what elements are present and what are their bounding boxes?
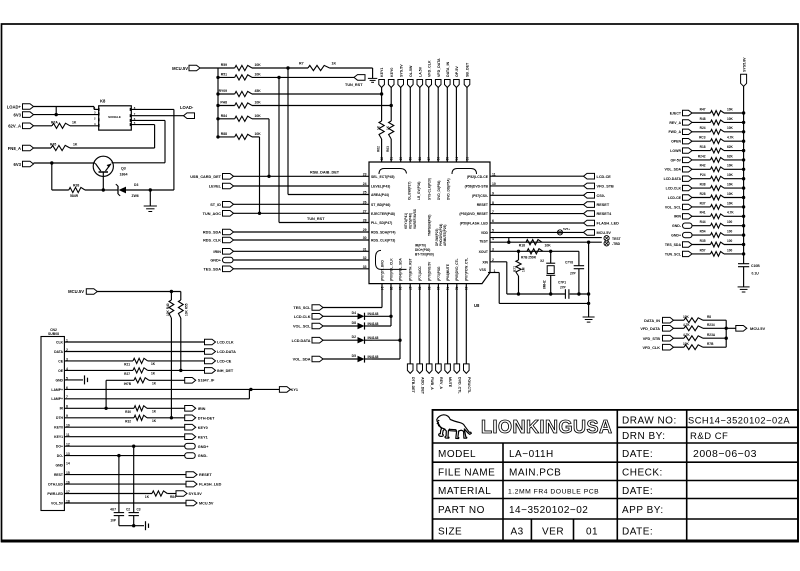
svg-text:FILE NAME: FILE NAME (438, 468, 495, 479)
crystal X2 8MHZ (550, 251, 552, 263)
svg-text:K8: K8 (100, 99, 106, 104)
svg-text:27: 27 (363, 210, 367, 214)
node MCU.5V (vfd group) (726, 327, 736, 329)
svg-text:ST_ID: ST_ID (210, 203, 221, 207)
svg-text:SYS.5V: SYS.5V (189, 492, 203, 496)
svg-text:25: 25 (363, 191, 367, 195)
wire pin13 GND- (64, 455, 184, 457)
svg-text:IRIN: IRIN (198, 407, 206, 411)
svg-text:1K: 1K (151, 372, 156, 376)
svg-text:DVD_DO(P5A): DVD_DO(P5A) (447, 178, 451, 200)
svg-text:TUN_AGC: TUN_AGC (203, 212, 222, 216)
node DTB-DET (bottom tag) (409, 284, 411, 364)
svg-text:XIN: XIN (482, 260, 488, 264)
svg-text:(P73)PSG: (P73)PSG (437, 266, 441, 281)
node VFD_CLK (top tag) (426, 80, 432, 88)
svg-text:KEY0: KEY0 (198, 426, 208, 430)
relay K8 (99, 106, 132, 130)
svg-text:LCD-CE: LCD-CE (597, 175, 612, 179)
node VFD_DATA (top tag) (435, 80, 441, 88)
svg-text:(P65)DVD_CTL: (P65)DVD_CTL (455, 258, 459, 281)
ground (caps) (119, 525, 144, 527)
wire VSS (488, 272, 499, 274)
resistor R59 10K (218, 67, 235, 69)
resistor R55 10K (180, 292, 182, 301)
node FLASH_LED (490, 222, 584, 224)
svg-text:R7B 250R: R7B 250R (521, 256, 537, 260)
resistor RM7B 1K (SIG_IF) (106, 379, 134, 381)
svg-text:SIZE: SIZE (438, 526, 462, 537)
svg-text:OP-5V: OP-5V (670, 158, 681, 162)
svg-text:XOUT: XOUT (479, 250, 489, 254)
wire pin12 GND+ (64, 445, 184, 447)
svg-text:ADD_DET: ADD_DET (420, 377, 424, 395)
resistor R18 10K (526, 240, 542, 245)
svg-text:100: 100 (727, 239, 733, 243)
svg-text:PART NO: PART NO (438, 505, 485, 516)
svg-text:OL.5W: OL.5W (409, 65, 413, 77)
node FWB_A (bottom tag) (428, 284, 430, 364)
svg-text:VOL_SDA: VOL_SDA (293, 358, 311, 362)
svg-text:(P52)LCD-CE: (P52)LCD-CE (467, 175, 489, 179)
svg-text:R7: R7 (299, 62, 304, 66)
svg-text:OE: OE (58, 369, 64, 373)
node POW.CTL (bottom tag) (465, 284, 467, 364)
ground (R7 row) (372, 68, 374, 78)
svg-text:RDS_CLK: RDS_CLK (203, 239, 221, 243)
svg-text:LA−011H: LA−011H (509, 449, 554, 460)
wire collector line (112, 162, 166, 164)
node RESET (490, 204, 584, 206)
svg-text:14: 14 (66, 462, 70, 466)
svg-text:DTB-DET: DTB-DET (411, 377, 415, 394)
svg-text:RDS_SDA(P74): RDS_SDA(P74) (371, 231, 396, 235)
svg-text:LCD.DATA: LCD.DATA (217, 350, 236, 354)
svg-text:6V3: 6V3 (14, 162, 22, 167)
svg-text:10K: 10K (727, 107, 734, 111)
svg-text:R51: R51 (221, 72, 227, 76)
node DVD_CTL (bottom tag) (456, 284, 458, 364)
node VFD_STB (490, 185, 584, 187)
svg-text:TUN_SCL: TUN_SCL (665, 252, 682, 256)
svg-text:VAREF/AVSS: VAREF/AVSS (413, 209, 417, 229)
svg-text:KY1: KY1 (291, 388, 298, 392)
wire pin2 LCD.DATA (64, 351, 204, 353)
svg-text:MCU.5V: MCU.5V (172, 66, 188, 71)
svg-text:R47: R47 (700, 107, 706, 111)
resistor R45 1K (34, 147, 52, 149)
svg-text:(P56)DVD-STB: (P56)DVD-STB (465, 185, 489, 189)
wire pin10 KEY0 (64, 426, 184, 428)
node OL.5W (top tag) (408, 80, 414, 88)
svg-text:R54: R54 (700, 230, 706, 234)
svg-text:MCU.5V: MCU.5V (597, 231, 612, 235)
svg-text:R63: R63 (386, 146, 390, 152)
svg-text:C7P1: C7P1 (558, 281, 566, 285)
svg-text:LAMP+: LAMP+ (51, 388, 63, 392)
svg-text:VFD_CLK: VFD_CLK (642, 346, 660, 350)
svg-text:1K: 1K (152, 419, 157, 423)
svg-text:R84: R84 (221, 114, 227, 118)
node LEVEL (223, 183, 234, 189)
svg-text:SB_DET: SB_DET (466, 62, 470, 77)
node DATA_IN (top tag) (445, 80, 451, 88)
node IRIN (223, 249, 234, 255)
svg-text:GND: GND (55, 378, 63, 382)
logo lion (437, 415, 472, 439)
svg-text:SYS-CLK(P20): SYS-CLK(P20) (428, 178, 432, 200)
svg-text:10K: 10K (727, 201, 734, 205)
wire pin11 KEY1 (64, 436, 184, 438)
svg-text:R24: R24 (700, 126, 706, 130)
node KEY0 (top tag) (388, 80, 394, 88)
svg-text:ARMUTE(P25): ARMUTE(P25) (443, 225, 447, 246)
node OP-5V (top tag) (454, 80, 460, 88)
svg-text:TES_SDA: TES_SDA (203, 267, 221, 271)
svg-text:62K: 62K (727, 145, 734, 149)
svg-text:29: 29 (363, 228, 367, 232)
svg-text:CHECK:: CHECK: (622, 468, 663, 479)
svg-text:LCD.DATA: LCD.DATA (292, 339, 311, 343)
svg-text:VOL.5V: VOL.5V (51, 501, 64, 505)
svg-text:-TBD: -TBD (612, 242, 621, 246)
svg-text:10K R55: 10K R55 (185, 303, 189, 316)
diode D3 ZW6 (zener, pointing left) (103, 189, 118, 191)
wire FN8_A up to relay pin4 (154, 125, 156, 148)
svg-text:RESET: RESET (597, 203, 610, 207)
svg-text:TES_SCL: TES_SCL (293, 306, 311, 310)
svg-text:10K: 10K (727, 164, 734, 168)
resistor 1K (key pullup) (381, 88, 383, 122)
svg-text:SEL_ECT(P45): SEL_ECT(P45) (371, 175, 395, 179)
svg-text:10P: 10P (110, 519, 117, 523)
svg-text:FWD_A: FWD_A (669, 130, 682, 134)
svg-text:R&D CF: R&D CF (690, 431, 728, 442)
resistor R7 1K (252, 67, 308, 69)
ground cap (pin5) (64, 379, 83, 381)
resistor R7B 250R (527, 249, 543, 254)
svg-text:RESET4: RESET4 (597, 212, 613, 216)
svg-text:LAMP+: LAMP+ (51, 397, 63, 401)
svg-text:MODEL: MODEL (438, 449, 476, 460)
test points TEST (490, 237, 602, 239)
svg-text:(P67)DT_BKO: (P67)DT_BKO (380, 260, 384, 281)
svg-text:VDD: VDD (481, 231, 489, 235)
node SYS.5V (ladder top tag) (741, 74, 747, 86)
svg-text:MCU.5V: MCU.5V (68, 289, 84, 294)
node MCU.5V (VDD) (490, 231, 584, 233)
svg-text:TUN_RST: TUN_RST (345, 83, 363, 87)
wire PH8 row to KEY0 net (252, 105, 391, 107)
svg-text:100: 100 (727, 230, 733, 234)
svg-text:1K: 1K (386, 125, 390, 130)
svg-text:DTH: DTH (56, 416, 64, 420)
wire TUN_RST branch down to pin28 (278, 77, 280, 222)
svg-text:26: 26 (363, 201, 367, 205)
svg-text:VOL_SCL: VOL_SCL (665, 205, 682, 209)
svg-text:MUTE: MUTE (448, 377, 452, 388)
svg-text:RSB_DAIB_DET: RSB_DAIB_DET (310, 171, 340, 175)
svg-text:MATERIAL: MATERIAL (438, 486, 491, 497)
svg-text:10K: 10K (727, 173, 734, 177)
svg-text:FN8_A: FN8_A (8, 146, 21, 151)
svg-text:BT-TX0(P60): BT-TX0(P60) (415, 253, 434, 257)
svg-text:APP BY:: APP BY: (622, 505, 664, 516)
svg-text:2008−06−03: 2008−06−03 (693, 448, 757, 460)
svg-text:VFD_CLK: VFD_CLK (427, 60, 431, 77)
wire MCU.5V bus (200, 67, 218, 69)
wire pin16 FLASH_LED (64, 483, 186, 485)
svg-text:LOAD-: LOAD- (180, 105, 194, 110)
svg-text:LCD.CLK: LCD.CLK (294, 315, 311, 319)
svg-text:GND-: GND- (672, 224, 682, 228)
capacitor C7P1 27P (564, 289, 566, 299)
svg-text:LCD-CE: LCD-CE (217, 360, 232, 364)
svg-text:1K: 1K (332, 62, 337, 66)
svg-text:24: 24 (363, 182, 367, 186)
node RDS_SDA (223, 229, 234, 235)
svg-text:REV_A: REV_A (439, 377, 443, 389)
wire RY09 row to KEY1 net (252, 93, 382, 95)
svg-text:LOWR: LOWR (670, 149, 681, 153)
svg-text:R32: R32 (125, 419, 131, 423)
node ADD_DET (bottom tag) (419, 284, 421, 364)
svg-text:DATA_IN: DATA_IN (644, 319, 660, 323)
svg-text:VSS: VSS (479, 268, 487, 272)
node LCD-CE (490, 175, 584, 177)
svg-text:DATE:: DATE: (622, 486, 653, 497)
svg-text:VFD_STB: VFD_STB (643, 337, 661, 341)
svg-text:RY09: RY09 (219, 89, 227, 93)
node LOAD+ (23, 104, 34, 110)
resistor R77 1M (518, 251, 520, 260)
transistor Q3 1864 (93, 156, 113, 176)
svg-text:MCU.5V: MCU.5V (199, 502, 214, 506)
title block (433, 410, 799, 542)
svg-text:P24: P24 (700, 173, 706, 177)
svg-text:VOL_SCL: VOL_SCL (293, 325, 311, 329)
svg-text:10K: 10K (255, 132, 262, 136)
ground (crystal) (583, 316, 595, 318)
svg-text:(P70)BTH_RST: (P70)BTH_RST (409, 258, 413, 281)
svg-text:Q3: Q3 (121, 167, 126, 171)
svg-text:U8: U8 (474, 303, 480, 308)
svg-text:10K: 10K (255, 114, 262, 118)
svg-text:X2: X2 (540, 259, 544, 263)
resistor R38 584R (51, 163, 53, 190)
svg-text:RDS_SDA: RDS_SDA (203, 231, 221, 235)
svg-text:1K: 1K (152, 382, 157, 386)
svg-text:GND: GND (55, 464, 63, 468)
svg-text:DVD_CTL: DVD_CTL (457, 377, 461, 394)
svg-text:R18: R18 (700, 145, 706, 149)
svg-text:(P50)FLASH_LED: (P50)FLASH_LED (460, 222, 489, 226)
ground (relay section) (149, 190, 151, 206)
node CS0- (490, 194, 584, 196)
svg-text:RC3: RC3 (699, 136, 706, 140)
svg-text:LEVEL(P43): LEVEL(P43) (371, 185, 390, 189)
svg-text:14−3520102−02: 14−3520102−02 (509, 505, 588, 516)
svg-text:SUB08: SUB08 (48, 332, 59, 336)
svg-text:10K: 10K (545, 244, 552, 248)
svg-text:4.7K: 4.7K (727, 211, 734, 215)
svg-text:TES_SDA: TES_SDA (665, 243, 682, 247)
svg-text:DATE:: DATE: (622, 449, 653, 460)
svg-text:1K: 1K (73, 143, 78, 147)
svg-text:MAIN.PCB: MAIN.PCB (509, 468, 561, 479)
svg-text:R7B: R7B (707, 342, 714, 346)
resistor R40 10K (170, 292, 172, 301)
svg-text:10K: 10K (727, 183, 734, 187)
svg-text:4.7K: 4.7K (683, 333, 690, 337)
svg-text:OP-5V: OP-5V (455, 66, 459, 77)
svg-text:INH_DET: INH_DET (217, 369, 234, 373)
node TUN_RST (252, 76, 354, 78)
wire bottom pin 34 to TES_SCL (381, 284, 383, 308)
resistor 1K (key pullup) (390, 88, 392, 122)
resistor R84 1K (pin17) (64, 493, 152, 495)
svg-text:GND+: GND+ (671, 234, 681, 238)
node FN8_A (23, 145, 34, 151)
svg-text:28: 28 (363, 219, 367, 223)
svg-text:R234: R234 (707, 323, 715, 327)
svg-text:VFD_DATA: VFD_DATA (640, 327, 660, 331)
wire diode rows to IC (372, 315, 391, 317)
svg-text:10K: 10K (727, 192, 734, 196)
svg-text:R242: R242 (698, 154, 706, 158)
svg-text:C7Y8: C7Y8 (565, 261, 573, 265)
svg-text:DRN BY:: DRN BY: (622, 431, 666, 442)
svg-text:31: 31 (363, 248, 367, 252)
svg-text:01: 01 (586, 526, 598, 537)
svg-text:OL.BW(P27): OL.BW(P27) (408, 182, 412, 200)
svg-text:D5: D5 (352, 354, 356, 358)
bottom rail (507, 293, 566, 295)
svg-text:R59: R59 (221, 63, 227, 67)
node 6V3 (23, 112, 34, 118)
svg-text:1864: 1864 (120, 172, 128, 176)
svg-text:(P67)PCW_CTL: (P67)PCW_CTL (465, 258, 469, 281)
capacitor C7Y8 27P (578, 251, 580, 265)
svg-text:IH7B: IH7B (124, 382, 132, 386)
svg-text:62K: 62K (727, 154, 734, 158)
svg-text:VOL_SDA: VOL_SDA (664, 168, 681, 172)
capacitor C10B 0.1U (738, 263, 749, 265)
svg-text:PWR.LED: PWR.LED (47, 492, 63, 496)
svg-text:R35: R35 (700, 239, 706, 243)
svg-text:ZW6: ZW6 (132, 194, 139, 198)
wire 6V3 to base (34, 162, 96, 164)
svg-text:DTH-DET: DTH-DET (198, 416, 215, 420)
svg-text:C10B: C10B (751, 264, 760, 268)
svg-text:32: 32 (363, 256, 367, 260)
svg-text:CN2: CN2 (50, 328, 57, 332)
svg-text:LIONKINGUSA: LIONKINGUSA (481, 417, 613, 437)
svg-text:KEY1: KEY1 (380, 68, 384, 77)
svg-text:IR: IR (60, 407, 64, 411)
wire pin1 LCD.CLK (64, 341, 204, 343)
node GND+ (223, 257, 234, 263)
svg-text:KEY1: KEY1 (54, 435, 63, 439)
svg-text:SYS.5V: SYS.5V (399, 64, 403, 77)
node LA.5V (top tag) (417, 80, 423, 88)
node ST_ID (223, 202, 234, 208)
resistor R30 1K (pin8 IR) (64, 407, 134, 409)
svg-text:PH8: PH8 (220, 101, 227, 105)
resistor R7A 1K (34, 125, 53, 127)
svg-text:1K: 1K (72, 121, 77, 125)
svg-text:CLK: CLK (56, 340, 64, 344)
svg-text:27P: 27P (560, 286, 567, 290)
svg-text:1.2MM FR4 DOUBLE PCB: 1.2MM FR4 DOUBLE PCB (508, 489, 599, 496)
svg-text:4.7K: 4.7K (727, 136, 734, 140)
svg-text:100: 100 (727, 220, 733, 224)
svg-text:EJECTER(P48): EJECTER(P48) (371, 212, 395, 216)
svg-text:LEVEL: LEVEL (209, 185, 222, 189)
svg-text:GND-: GND- (198, 454, 208, 458)
svg-text:8MHZ: 8MHZ (543, 280, 547, 289)
svg-text:LB_GV(P34): LB_GV(P34) (417, 182, 421, 200)
svg-text:SYS5.8V: SYS5.8V (743, 57, 747, 72)
svg-text:(P60)VOL_CLK: (P60)VOL_CLK (389, 258, 393, 281)
svg-text:IN4148: IN4148 (368, 322, 379, 326)
ground (ladder) (738, 286, 750, 288)
svg-text:6V3: 6V3 (14, 112, 22, 117)
svg-text:R45: R45 (50, 143, 56, 147)
svg-text:R77: R77 (513, 266, 517, 272)
svg-text:AREA(P44): AREA(P44) (371, 193, 389, 197)
resistor PH8 10K (218, 105, 235, 107)
svg-text:DIO+(P30): DIO+(P30) (415, 248, 430, 252)
svg-text:LCD.CLK: LCD.CLK (666, 187, 682, 191)
svg-text:IRIN: IRIN (213, 250, 221, 254)
svg-text:TUN_RST: TUN_RST (307, 217, 325, 221)
svg-text:REV_A: REV_A (669, 121, 681, 125)
node 62V_A (23, 123, 34, 129)
wire pin18 MCU.5V (64, 502, 186, 504)
svg-text:0.1U: 0.1U (752, 272, 760, 276)
svg-text:R30: R30 (125, 410, 131, 414)
node TES_SDA (223, 266, 234, 272)
svg-text:DATE:: DATE: (622, 526, 653, 537)
svg-text:10K: 10K (727, 126, 734, 130)
svg-text:RDS_CLK(P73): RDS_CLK(P73) (371, 239, 395, 243)
svg-text:R44: R44 (700, 220, 706, 224)
wire relay pin7 to LOAD- (131, 115, 183, 117)
connector CN2 (41, 337, 64, 511)
svg-text:(P53)DVD_RESET: (P53)DVD_RESET (459, 212, 489, 216)
resistor R88 10K (218, 136, 235, 138)
svg-text:R18: R18 (519, 244, 525, 248)
svg-text:R88: R88 (221, 132, 227, 136)
svg-text:SCH14−3520102−02A: SCH14−3520102−02A (688, 415, 790, 425)
svg-text:KEY0: KEY0 (390, 68, 394, 77)
node RDS_CLK (223, 237, 234, 243)
svg-text:IN4148: IN4148 (368, 312, 379, 316)
wire LOAD+ to relay (34, 106, 95, 108)
svg-text:R27: R27 (124, 372, 130, 376)
svg-text:100: 100 (727, 248, 733, 252)
svg-text:IRIN: IRIN (674, 215, 681, 219)
svg-text:POW.CTL: POW.CTL (467, 377, 471, 394)
svg-text:C3: C3 (137, 508, 141, 512)
svg-text:D3: D3 (134, 183, 138, 187)
svg-text:1M: 1M (522, 267, 526, 272)
svg-text:R42: R42 (700, 164, 706, 168)
svg-text:584R: 584R (70, 194, 79, 198)
svg-text:S1847_IF: S1847_IF (198, 379, 215, 383)
svg-text:EJECT: EJECT (670, 111, 682, 115)
